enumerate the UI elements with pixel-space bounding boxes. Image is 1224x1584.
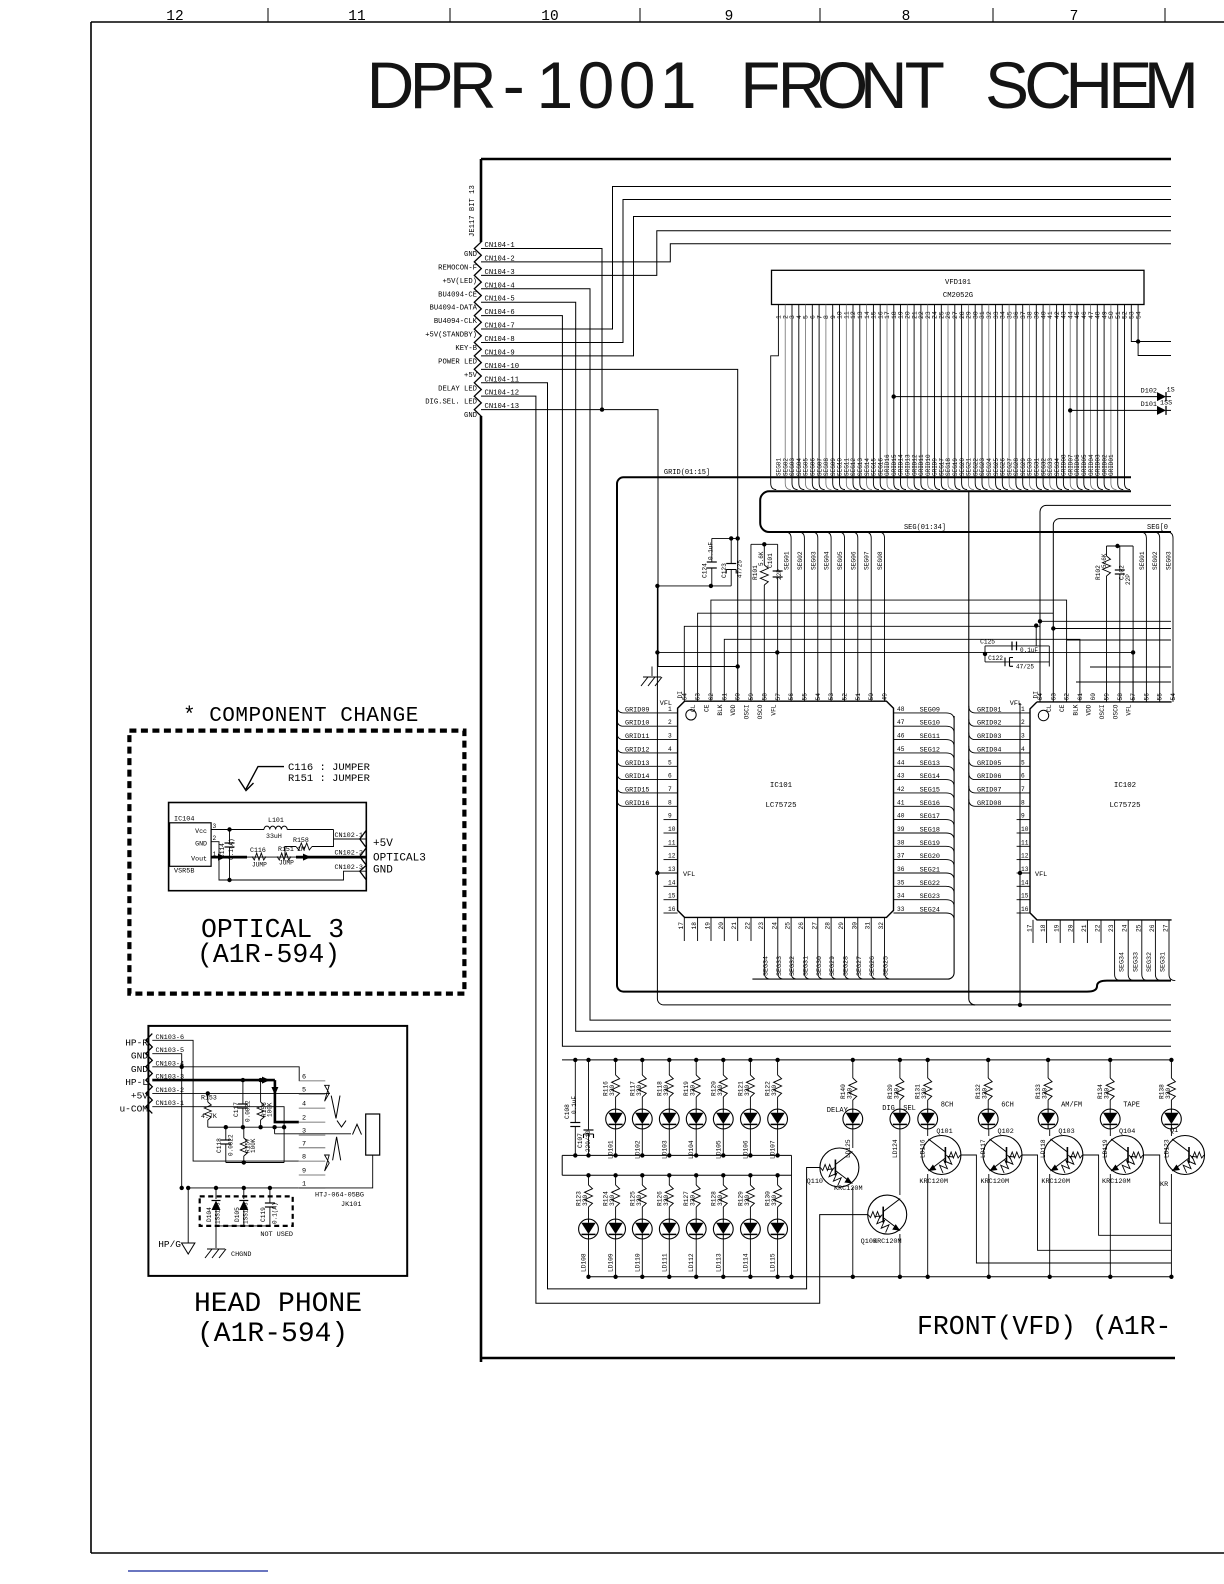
transistor Q104 KRC120M <box>1105 1136 1144 1175</box>
svg-text:0.1uF: 0.1uF <box>571 1096 578 1114</box>
svg-text:1S: 1S <box>1167 387 1175 395</box>
svg-text:POWER LED: POWER LED <box>438 358 477 366</box>
svg-text:330: 330 <box>609 1085 616 1096</box>
svg-text:SEG16: SEG16 <box>920 800 940 808</box>
svg-text:26: 26 <box>798 922 805 930</box>
LED LD116 <box>918 1109 938 1129</box>
svg-text:OSCO: OSCO <box>757 704 764 719</box>
wire IC102 DI CL CE continuation to off-page <box>1040 620 1171 622</box>
svg-text:AM/FM: AM/FM <box>1061 1102 1082 1110</box>
svg-text:SEG26: SEG26 <box>869 956 877 976</box>
svg-text:11: 11 <box>348 9 365 25</box>
svg-text:46: 46 <box>897 733 905 740</box>
wire Vcc to CN102-1 <box>334 830 367 840</box>
svg-text:2: 2 <box>213 835 217 842</box>
svg-text:62: 62 <box>708 693 715 701</box>
svg-text:C119: C119 <box>260 1207 267 1222</box>
svg-text:42: 42 <box>897 786 905 793</box>
LED LD103 <box>659 1109 679 1129</box>
LED return vertical <box>791 1155 793 1276</box>
svg-text:OSCI: OSCI <box>1099 704 1106 719</box>
svg-text:17: 17 <box>678 922 685 930</box>
wire Q101 base net <box>961 1155 1171 1263</box>
svg-text:HP-L: HP-L <box>125 1077 148 1088</box>
wire CN104-5 BU4094-DATA <box>481 302 1171 1031</box>
svg-text:13: 13 <box>1021 866 1029 873</box>
connector CN102 <box>360 830 367 880</box>
wire GND pin2 to CN102-3 <box>211 842 366 880</box>
svg-text:VDD: VDD <box>730 704 737 715</box>
svg-text:R158: R158 <box>293 837 309 844</box>
svg-text:Q101: Q101 <box>936 1128 952 1136</box>
svg-text:61: 61 <box>721 693 728 701</box>
svg-text:7: 7 <box>668 786 672 793</box>
svg-text:53: 53 <box>828 693 835 701</box>
resistor R130 330 <box>775 1173 779 1177</box>
svg-text:18: 18 <box>691 922 698 930</box>
svg-text:LD101: LD101 <box>608 1140 615 1159</box>
svg-text:11: 11 <box>1021 839 1029 846</box>
svg-text:SEG27: SEG27 <box>856 956 864 976</box>
svg-text:24: 24 <box>771 922 778 930</box>
svg-text:SEG01: SEG01 <box>1139 551 1146 570</box>
svg-text:SEG03: SEG03 <box>1166 551 1173 570</box>
svg-text:SEG(01:34]: SEG(01:34] <box>904 524 946 532</box>
svg-text:44: 44 <box>897 759 905 766</box>
transistor Q103 KRC120M <box>1044 1136 1083 1175</box>
svg-text:JUMP: JUMP <box>279 860 294 867</box>
main schematic frame FRONT(VFD) <box>481 158 1171 161</box>
chassis ground near IC101 <box>651 667 653 677</box>
transistor Q101 KRC120M <box>922 1136 961 1175</box>
LED LD114 <box>741 1219 761 1239</box>
inductor L101 33uH <box>211 829 264 831</box>
svg-text:SEG[0: SEG[0 <box>1147 524 1168 532</box>
svg-text:* COMPONENT CHANGE: * COMPONENT CHANGE <box>183 705 419 728</box>
svg-text:SEG31: SEG31 <box>1160 952 1168 972</box>
svg-text:SEG03: SEG03 <box>810 551 817 570</box>
svg-text:GRID13: GRID13 <box>625 760 649 768</box>
transistor Q102 KRC120M <box>983 1136 1022 1175</box>
svg-text:OSCI: OSCI <box>744 704 751 719</box>
IC102 SEG01-03 drops <box>1140 532 1146 702</box>
svg-text:C108: C108 <box>564 1104 571 1119</box>
resistor R119 330 <box>694 1058 698 1062</box>
svg-text:20: 20 <box>1067 924 1074 932</box>
svg-text:(A1R-594): (A1R-594) <box>197 940 340 970</box>
capacitor C107 220/10 <box>586 1058 590 1062</box>
headphone mid rail <box>208 1126 284 1128</box>
svg-text:HTJ-064-05BG: HTJ-064-05BG <box>315 1192 364 1200</box>
resistor R122 330 <box>775 1058 779 1062</box>
svg-text:330: 330 <box>921 1088 928 1099</box>
svg-text:CE: CE <box>704 704 711 712</box>
LED row1 cathode rail <box>562 1154 791 1156</box>
svg-text:8: 8 <box>668 799 672 806</box>
svg-text:DIG. SEL: DIG. SEL <box>882 1105 916 1113</box>
resistor R129 330 <box>748 1173 752 1177</box>
svg-text:56: 56 <box>1143 693 1150 701</box>
svg-text:9: 9 <box>725 9 734 25</box>
svg-text:9: 9 <box>668 813 672 820</box>
svg-text:18: 18 <box>1040 924 1047 932</box>
jack body JK101 <box>366 1114 380 1155</box>
svg-text:DI: DI <box>677 691 684 699</box>
svg-text:CN102-1: CN102-1 <box>334 832 363 840</box>
LED LD106 <box>741 1109 761 1129</box>
svg-text:C118: C118 <box>216 1138 223 1153</box>
svg-text:21: 21 <box>1081 924 1088 932</box>
resistor R101 5.6K with capacitor C101 22P <box>751 543 778 545</box>
svg-text:-: - <box>503 48 525 122</box>
LED bottom rail <box>590 1276 1171 1278</box>
wire Q102 base net <box>1022 1155 1171 1250</box>
svg-text:GRID01: GRID01 <box>1108 454 1115 476</box>
IC IC102 LC75725 <box>1030 702 1172 920</box>
svg-text:6: 6 <box>668 773 672 780</box>
svg-text:5.6K: 5.6K <box>1101 553 1108 568</box>
resistor R140 330 <box>851 1058 855 1062</box>
diode D101 net from VFD pin 44 <box>1068 408 1072 412</box>
svg-text:2: 2 <box>1021 719 1025 726</box>
wire CN104-13 GND <box>481 410 658 667</box>
LED LD115 <box>768 1219 788 1239</box>
resistor R139 330 <box>898 1058 902 1062</box>
svg-text:1: 1 <box>302 1180 306 1188</box>
svg-text:R: R <box>449 48 497 122</box>
svg-text:IC104: IC104 <box>174 816 194 824</box>
svg-text:19: 19 <box>1054 924 1061 932</box>
svg-text:SEG32: SEG32 <box>789 956 797 976</box>
svg-text:LD102: LD102 <box>634 1140 641 1159</box>
svg-text:6CH: 6CH <box>1001 1102 1014 1110</box>
svg-text:H: H <box>1065 48 1113 122</box>
svg-text:9: 9 <box>1021 813 1025 820</box>
svg-text:KRC120M: KRC120M <box>1102 1178 1131 1186</box>
svg-text:HP/G: HP/G <box>158 1239 181 1250</box>
svg-text:CN102-3: CN102-3 <box>334 864 363 872</box>
IC102 left pins GRID01-GRID08 <box>969 706 1030 713</box>
svg-text:L101: L101 <box>268 817 284 824</box>
svg-text:100K: 100K <box>250 1138 257 1153</box>
svg-text:GRID06: GRID06 <box>977 773 1001 781</box>
svg-text:JUMP: JUMP <box>252 862 267 869</box>
svg-text:330: 330 <box>744 1085 751 1096</box>
svg-text:5: 5 <box>1021 759 1025 766</box>
svg-text:22: 22 <box>745 922 752 930</box>
svg-text:50: 50 <box>868 693 875 701</box>
svg-text:+5V: +5V <box>373 838 393 850</box>
svg-text:JE117 BIT 13: JE117 BIT 13 <box>469 185 477 237</box>
svg-text:DELAY: DELAY <box>827 1107 849 1115</box>
headphone lower rail <box>226 1162 284 1164</box>
svg-text:BLK: BLK <box>717 704 724 715</box>
svg-text:N: N <box>860 48 908 122</box>
LED LD118 <box>1038 1109 1058 1129</box>
svg-text:R101: R101 <box>752 565 759 580</box>
wire CN104-6 BU4094-CLK <box>481 316 1171 1047</box>
svg-text:R151: R151 <box>278 846 294 853</box>
svg-text:GRID09: GRID09 <box>625 706 649 714</box>
svg-text:LC75725: LC75725 <box>1109 802 1140 810</box>
capacitor C123 47/25 <box>729 536 733 540</box>
jumper R151 1M <box>277 853 291 860</box>
svg-text:SEG25: SEG25 <box>883 956 891 976</box>
svg-text:GND: GND <box>464 412 477 420</box>
svg-text:4.7K: 4.7K <box>201 1113 217 1120</box>
svg-text:SEG29: SEG29 <box>829 956 837 976</box>
wire VFL to C124 cluster <box>657 585 731 587</box>
svg-text:49: 49 <box>882 693 889 701</box>
svg-text:Vcc: Vcc <box>195 828 207 835</box>
svg-text:GRID11: GRID11 <box>625 733 649 741</box>
svg-text:1: 1 <box>660 48 697 122</box>
svg-text:SEG22: SEG22 <box>920 880 940 888</box>
svg-text:19: 19 <box>705 922 712 930</box>
svg-text:C125: C125 <box>980 639 995 646</box>
svg-text:7: 7 <box>1021 786 1025 793</box>
svg-text:51: 51 <box>855 693 862 701</box>
svg-text:GND: GND <box>195 841 207 848</box>
IC102 GRID hook bus from SEG band <box>969 491 975 1005</box>
svg-text:SEG34: SEG34 <box>1119 952 1127 972</box>
svg-text:GRID05: GRID05 <box>977 760 1001 768</box>
svg-text:Q102: Q102 <box>998 1128 1014 1136</box>
svg-text:C124: C124 <box>702 563 709 578</box>
transistor Q105 KRC120M partial at edge <box>1166 1136 1205 1175</box>
svg-text:NOT USED: NOT USED <box>260 1231 293 1239</box>
resistor R116 330 <box>613 1058 617 1062</box>
svg-text:63: 63 <box>1050 693 1057 701</box>
svg-text:47/25: 47/25 <box>737 560 744 578</box>
svg-text:FRONT(VFD) (A1R-: FRONT(VFD) (A1R- <box>917 1312 1171 1342</box>
svg-text:KEY-B: KEY-B <box>455 345 477 353</box>
svg-text:57: 57 <box>775 693 782 701</box>
svg-text:25: 25 <box>1135 924 1142 932</box>
svg-text:59: 59 <box>1104 693 1111 701</box>
svg-text:DELAY LED: DELAY LED <box>438 385 477 393</box>
resistor R158 <box>285 847 296 857</box>
svg-text:22P: 22P <box>1125 574 1132 585</box>
svg-text:R151 : JUMPER: R151 : JUMPER <box>288 773 371 785</box>
svg-text:45: 45 <box>897 746 905 753</box>
svg-text:CE: CE <box>1059 704 1066 712</box>
svg-text:LC75725: LC75725 <box>765 802 796 810</box>
svg-text:330: 330 <box>1104 1088 1111 1099</box>
wire GND pins join <box>152 1054 181 1188</box>
thick signal wire Vout to CN102-2 OPTICAL3 <box>211 856 247 859</box>
svg-text:12: 12 <box>166 9 183 25</box>
svg-text:9: 9 <box>302 1168 306 1176</box>
svg-text:330: 330 <box>636 1195 643 1206</box>
svg-text:CL: CL <box>1046 704 1053 712</box>
svg-text:35: 35 <box>897 879 905 886</box>
display VFD101 CM2052G box <box>772 270 1145 304</box>
svg-text:C117: C117 <box>233 1102 240 1117</box>
svg-text:+5V(LED): +5V(LED) <box>442 278 477 286</box>
svg-text:SEG24: SEG24 <box>920 907 940 915</box>
IC101 right vertical SEG bus <box>752 716 954 979</box>
LED LD113 <box>713 1219 733 1239</box>
svg-text:KRC120M: KRC120M <box>981 1178 1010 1186</box>
svg-text:(A1R-594): (A1R-594) <box>197 1319 348 1350</box>
wire CN104-7 +5V(STANDBY) <box>481 187 1171 330</box>
svg-text:36: 36 <box>897 866 905 873</box>
svg-text:P: P <box>410 48 454 122</box>
svg-text:SEG10: SEG10 <box>920 720 940 728</box>
wire CN104-3 +5V(LED) <box>481 231 1171 276</box>
svg-text:52: 52 <box>842 693 849 701</box>
svg-text:SEG01: SEG01 <box>784 551 791 570</box>
svg-text:VFL: VFL <box>660 700 672 708</box>
svg-text:DI: DI <box>1033 691 1040 699</box>
svg-text:7: 7 <box>302 1140 306 1148</box>
IC101 left pins GRID09-GRID16 and 9-16 <box>617 706 678 713</box>
svg-text:LD110: LD110 <box>634 1253 641 1272</box>
headphone ground rail <box>188 1187 299 1189</box>
diode D104 1SS133 <box>215 1188 217 1199</box>
svg-text:+5V: +5V <box>464 372 478 380</box>
svg-text:BU4094-CE: BU4094-CE <box>438 291 477 299</box>
IC102 VFL net line <box>1019 703 1021 1005</box>
svg-text:13: 13 <box>668 866 676 873</box>
LED LD102 <box>632 1109 652 1129</box>
resistor R124 330 <box>613 1173 617 1177</box>
LED LD112 <box>686 1219 706 1239</box>
svg-text:GRID12: GRID12 <box>625 746 649 754</box>
svg-text:LD108: LD108 <box>581 1253 588 1272</box>
svg-text:SEG08: SEG08 <box>877 551 884 570</box>
svg-text:SEG28: SEG28 <box>843 956 851 976</box>
svg-text:17: 17 <box>1027 924 1034 932</box>
svg-text:15: 15 <box>668 893 676 900</box>
svg-text:F: F <box>740 48 780 122</box>
svg-text:LD109: LD109 <box>608 1253 615 1272</box>
svg-text:31: 31 <box>865 922 872 930</box>
svg-text:43: 43 <box>897 773 905 780</box>
svg-text:GND: GND <box>464 251 477 259</box>
bus lines lower area <box>562 1059 1171 1061</box>
wire Q104 base net <box>1144 1155 1172 1223</box>
svg-text:VFL: VFL <box>1010 700 1022 708</box>
svg-text:S: S <box>985 48 1029 122</box>
svg-text:5: 5 <box>668 759 672 766</box>
svg-text:54: 54 <box>1135 311 1142 319</box>
svg-text:BU4094-CLK: BU4094-CLK <box>434 318 478 326</box>
resistor R132 330 <box>986 1058 990 1062</box>
svg-text:GRID16: GRID16 <box>625 800 649 808</box>
resistor R126 330 <box>667 1173 671 1177</box>
svg-text:28: 28 <box>825 922 832 930</box>
capacitor C108 0.1uF <box>573 1058 577 1062</box>
svg-text:58: 58 <box>761 693 768 701</box>
wire CN104-4 BU4094-CE <box>481 289 1171 1020</box>
svg-text:24: 24 <box>1122 924 1129 932</box>
IC101 SEG01-SEG08 drops from bus <box>785 532 791 701</box>
svg-text:GRID14: GRID14 <box>625 773 649 781</box>
svg-text:BLK: BLK <box>1072 704 1079 715</box>
svg-text:6: 6 <box>302 1073 306 1081</box>
svg-text:330: 330 <box>690 1085 697 1096</box>
wire stubs to off-page right <box>1090 666 1171 668</box>
svg-text:GND: GND <box>131 1051 148 1062</box>
svg-text:12: 12 <box>1021 853 1029 860</box>
svg-text:59: 59 <box>748 693 755 701</box>
svg-text:0.0022: 0.0022 <box>245 1100 252 1122</box>
svg-text:Q103: Q103 <box>1058 1128 1074 1136</box>
svg-text:GRID02: GRID02 <box>977 720 1001 728</box>
svg-text:330: 330 <box>744 1195 751 1206</box>
transistor Q110 KRC120M <box>820 1148 859 1187</box>
svg-text:6: 6 <box>1021 773 1025 780</box>
svg-text:SEG31: SEG31 <box>802 956 810 976</box>
svg-text:C122: C122 <box>988 655 1003 662</box>
svg-text:GRID03: GRID03 <box>977 733 1001 741</box>
capacitor C114 0.1(A) <box>227 827 231 831</box>
svg-text:SEG07: SEG07 <box>864 551 871 570</box>
LED LD107 <box>768 1109 788 1129</box>
svg-text:330: 330 <box>1165 1088 1172 1099</box>
svg-text:IC101: IC101 <box>770 782 793 790</box>
resistor R156 100K <box>260 1080 262 1102</box>
svg-text:SEG02: SEG02 <box>1152 551 1159 570</box>
svg-text:47/25: 47/25 <box>1016 664 1034 671</box>
headphone circuit box <box>148 1026 407 1276</box>
svg-text:GRID(01:15]: GRID(01:15] <box>664 469 710 477</box>
diode D105 1SS133 <box>243 1188 245 1199</box>
resistor R128 330 <box>721 1173 725 1177</box>
wire CN104-10 +5V to IC101 VDD <box>481 369 738 701</box>
svg-text:VFL: VFL <box>770 704 777 715</box>
svg-text:48: 48 <box>897 706 905 713</box>
svg-text:4: 4 <box>1021 746 1025 753</box>
svg-text:SEG14: SEG14 <box>920 773 940 781</box>
diode D102 net from VFD pin 18 <box>892 394 896 398</box>
svg-text:54: 54 <box>1170 693 1177 701</box>
svg-text:GRID04: GRID04 <box>977 746 1001 754</box>
svg-text:3: 3 <box>302 1128 306 1136</box>
svg-text:SEG05: SEG05 <box>837 551 844 570</box>
svg-text:54: 54 <box>815 693 822 701</box>
svg-text:SEG04: SEG04 <box>824 551 831 570</box>
svg-text:HP-R: HP-R <box>125 1037 148 1048</box>
ruler ticks <box>267 8 269 22</box>
svg-text:GRID10: GRID10 <box>625 720 649 728</box>
svg-text:SEG09: SEG09 <box>920 706 940 714</box>
svg-text:3: 3 <box>1021 733 1025 740</box>
svg-text:330: 330 <box>846 1088 853 1099</box>
svg-text:SEG23: SEG23 <box>920 893 940 901</box>
svg-text:SEG33: SEG33 <box>776 956 784 976</box>
resistor R133 330 <box>1046 1058 1050 1062</box>
capacitor C124 0.1uF <box>712 537 738 539</box>
LED LD111 <box>659 1219 679 1239</box>
svg-text:C116: C116 <box>250 847 266 854</box>
svg-text:21: 21 <box>731 922 738 930</box>
svg-text:SEG17: SEG17 <box>920 813 940 821</box>
svg-text:LD103: LD103 <box>661 1140 668 1159</box>
IC IC104 VSR5B <box>170 823 212 867</box>
not used dashed box <box>200 1196 293 1226</box>
wire +5V to jack pin5 <box>152 1092 330 1094</box>
svg-text:4: 4 <box>668 746 672 753</box>
svg-text:23: 23 <box>758 922 765 930</box>
wire CN104-12 DIG.SEL. LED to Q109 base <box>481 396 868 1303</box>
bottom-left link underline <box>128 1570 268 1572</box>
svg-text:LD114: LD114 <box>742 1253 749 1272</box>
connector CN103 <box>146 1034 153 1114</box>
LED LD105 <box>713 1109 733 1129</box>
